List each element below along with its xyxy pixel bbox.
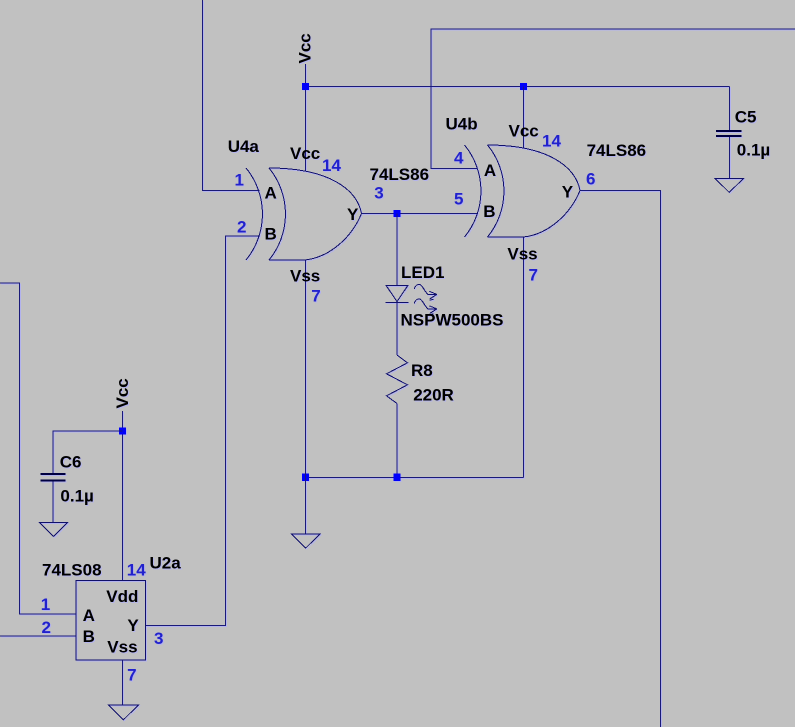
svg-text:Y: Y: [127, 616, 139, 635]
junction: U4a output node: [393, 210, 400, 217]
svg-text:0.1µ: 0.1µ: [737, 141, 770, 160]
wire: LED cathode to R8: [396, 302, 398, 355]
svg-text:3: 3: [154, 629, 163, 648]
ground below C6: [39, 522, 68, 536]
wire: U4a Vss pin 7 down to ground rail: [305, 260, 307, 477]
svg-text:U2a: U2a: [150, 553, 182, 572]
ground below C5: [715, 178, 744, 192]
wire: U4a output Y to U4b pin 5: [362, 213, 478, 215]
svg-text:4: 4: [454, 149, 464, 168]
svg-text:7: 7: [311, 287, 320, 306]
svg-text:6: 6: [586, 169, 595, 188]
wire: left input net to U2a pin 1: [0, 283, 76, 614]
svg-text:Vcc: Vcc: [296, 33, 315, 63]
svg-text:Vss: Vss: [507, 244, 537, 263]
svg-text:Vss: Vss: [107, 637, 137, 656]
xor gate U4a body: [246, 168, 362, 260]
svg-text:5: 5: [454, 190, 463, 209]
svg-text:220R: 220R: [413, 385, 454, 404]
wire: C5 bottom lead: [729, 137, 731, 178]
svg-text:A: A: [83, 606, 95, 625]
svg-text:1: 1: [41, 595, 50, 614]
capacitor C6 plates: [41, 474, 66, 481]
junction: Vcc node at C6 tap: [119, 427, 126, 434]
wire: U2a output Y (pin 3) up to U4a pin 2: [146, 236, 260, 626]
svg-text:NSPW500BS: NSPW500BS: [401, 311, 504, 330]
svg-text:1: 1: [235, 171, 244, 190]
wire: C5 top lead: [729, 87, 731, 131]
ground below U2a: [109, 705, 139, 720]
junction: ground rail at U4a Vss branch: [302, 474, 309, 481]
svg-text:7: 7: [529, 266, 538, 285]
wire: ground rail: [306, 476, 524, 478]
svg-text:R8: R8: [411, 361, 433, 380]
svg-text:A: A: [484, 161, 496, 180]
svg-text:Vcc: Vcc: [290, 144, 320, 163]
wire: U2a Vss pin 7 to ground: [122, 660, 124, 705]
junction: Vcc rail at U4a Vcc: [302, 83, 309, 90]
svg-text:B: B: [265, 225, 277, 244]
wire: U4b Vcc stub: [523, 87, 525, 148]
svg-text:Y: Y: [562, 182, 574, 201]
svg-text:U4b: U4b: [446, 115, 478, 134]
xor gate U4b body: [465, 145, 581, 237]
svg-text:C6: C6: [60, 453, 82, 472]
capacitor C5 plates: [716, 131, 742, 136]
resistor R8 zigzag: [387, 355, 408, 404]
wire: top feedback net into U4b pin 4: [431, 29, 795, 168]
svg-text:Vdd: Vdd: [106, 587, 138, 606]
svg-text:7: 7: [127, 665, 136, 684]
wire: U4b output Y to right edge bottom: [580, 191, 661, 727]
svg-text:Vcc: Vcc: [509, 121, 539, 140]
svg-text:14: 14: [127, 560, 146, 579]
wire: Vcc down to U2a Vdd pin 14: [122, 411, 124, 581]
svg-text:Vcc: Vcc: [113, 378, 132, 408]
svg-text:74LS08: 74LS08: [42, 561, 102, 580]
svg-text:3: 3: [374, 183, 383, 202]
wire: left input net to U2a pin 2: [0, 635, 76, 637]
svg-text:Vss: Vss: [290, 266, 320, 285]
wire: R8 bottom to ground rail: [396, 404, 398, 478]
wire: C6 bottom lead: [52, 481, 54, 522]
svg-text:2: 2: [42, 618, 51, 637]
wire: ground stub below rail: [305, 477, 307, 534]
wire: Vcc rail horizontal to C5: [306, 86, 730, 88]
svg-text:LED1: LED1: [401, 263, 444, 282]
svg-text:C5: C5: [735, 107, 757, 126]
wire: C6 top lead: [53, 431, 123, 473]
svg-text:B: B: [483, 202, 495, 221]
and gate U2a box: [76, 581, 146, 661]
wire: LED anode lead from output node: [396, 214, 398, 286]
svg-text:74LS86: 74LS86: [587, 141, 647, 160]
svg-text:A: A: [265, 184, 277, 203]
wire: U4b Vss pin 7 down to ground rail: [523, 237, 525, 477]
svg-text:0.1µ: 0.1µ: [60, 487, 93, 506]
svg-text:2: 2: [237, 217, 246, 236]
wire: input net to U4a pin 1: [203, 0, 260, 191]
svg-text:B: B: [83, 627, 95, 646]
ground below rail: [291, 534, 320, 548]
svg-text:74LS86: 74LS86: [370, 165, 430, 184]
svg-text:14: 14: [322, 156, 341, 175]
LED LED1 symbol: [386, 284, 437, 314]
svg-text:U4a: U4a: [228, 137, 260, 156]
svg-text:Y: Y: [347, 205, 359, 224]
wire: Vcc net vertical to U4a Vcc pin 14: [305, 64, 307, 170]
junction: ground rail at R8 branch: [393, 474, 400, 481]
svg-text:14: 14: [542, 131, 561, 150]
junction: Vcc rail at U4b Vcc: [520, 83, 527, 90]
